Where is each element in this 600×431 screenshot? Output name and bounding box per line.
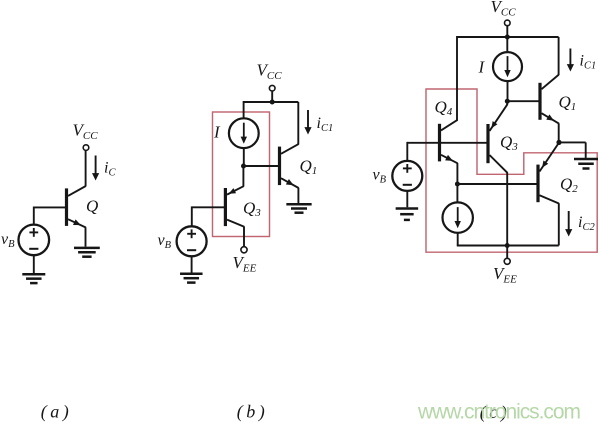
svg-text:vB: vB <box>1 231 15 250</box>
svg-text:VEE: VEE <box>493 264 517 286</box>
svg-text:Q4: Q4 <box>435 98 453 119</box>
svg-text:vB: vB <box>373 167 387 186</box>
svg-text:(a): (a) <box>41 402 73 423</box>
svg-text:VEE: VEE <box>233 253 257 275</box>
svg-text:(b): (b) <box>237 402 269 423</box>
svg-text:Q1: Q1 <box>559 93 577 114</box>
svg-text:Q: Q <box>86 197 98 216</box>
svg-text:iC1: iC1 <box>317 115 334 134</box>
svg-text:Q3: Q3 <box>243 199 261 220</box>
svg-text:VCC: VCC <box>257 61 283 83</box>
svg-text:VCC: VCC <box>491 0 517 19</box>
svg-text:Q2: Q2 <box>560 175 578 196</box>
svg-text:iC1: iC1 <box>580 53 597 72</box>
svg-text:iC2: iC2 <box>578 214 595 233</box>
svg-text:I: I <box>478 58 486 77</box>
svg-text:Q1: Q1 <box>300 157 318 178</box>
svg-text:VCC: VCC <box>73 121 99 143</box>
svg-text:vB: vB <box>158 232 172 251</box>
svg-text:I: I <box>213 123 221 142</box>
svg-text:iC: iC <box>104 160 116 179</box>
svg-text:Q3: Q3 <box>500 133 518 154</box>
svg-text:www.cntronics.com: www.cntronics.com <box>417 401 581 424</box>
